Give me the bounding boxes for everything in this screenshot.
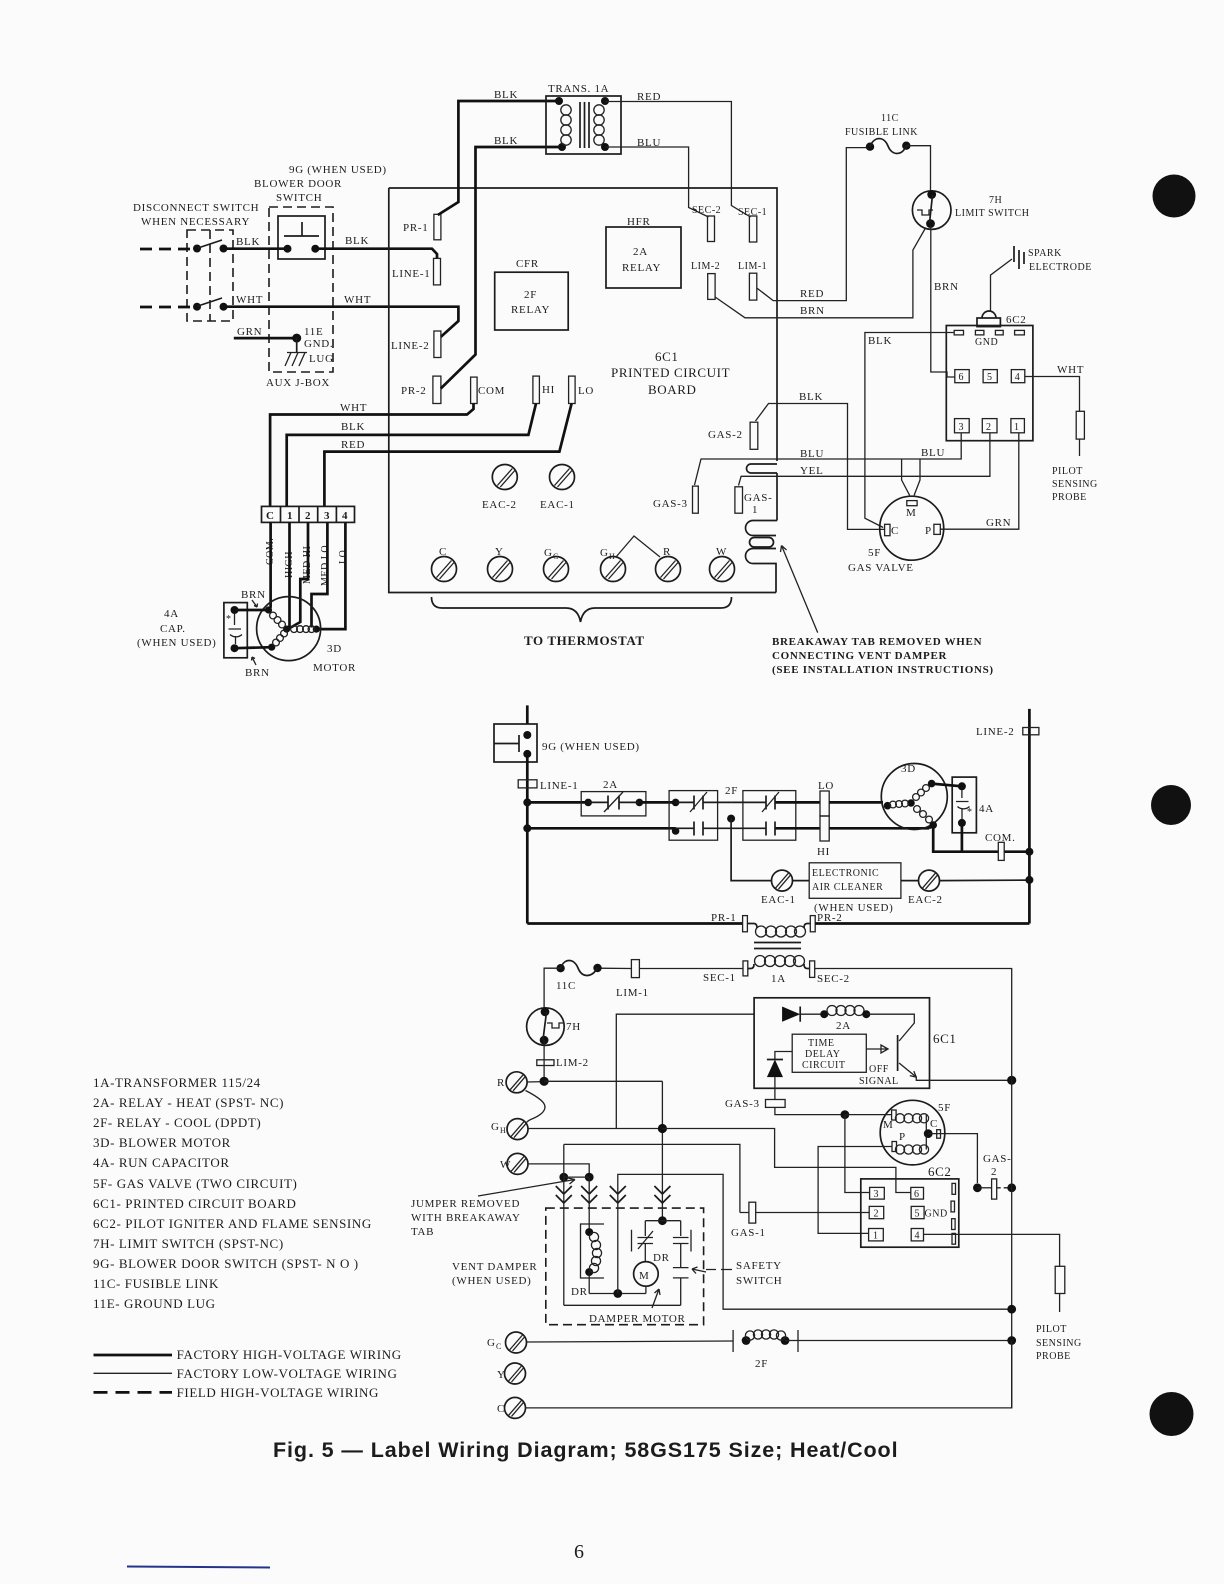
R drop to damper — [661, 1081, 663, 1220]
svg-text:BLK: BLK — [236, 236, 260, 248]
svg-text:LIMIT SWITCH: LIMIT SWITCH — [955, 208, 1029, 219]
svg-text:P: P — [899, 1131, 906, 1143]
svg-text:LO: LO — [578, 385, 594, 397]
wire BRN LIM-2 to 7H — [715, 228, 925, 318]
svg-text:M: M — [639, 1270, 649, 1282]
svg-text:2: 2 — [991, 1166, 997, 1178]
svg-text:(SEE INSTALLATION INSTRUCTIONS: (SEE INSTALLATION INSTRUCTIONS) — [772, 664, 994, 676]
svg-text:BLU: BLU — [637, 137, 661, 149]
GRN wire — [234, 337, 297, 340]
svg-text:2F: 2F — [524, 289, 537, 301]
svg-text:FIELD HIGH-VOLTAGE WIRING: FIELD HIGH-VOLTAGE WIRING — [177, 1385, 379, 1400]
svg-text:LINE-1: LINE-1 — [540, 780, 578, 792]
svg-text:WHEN NECESSARY: WHEN NECESSARY — [141, 216, 250, 228]
svg-text:BLK: BLK — [868, 335, 892, 347]
jumper arrow — [478, 1178, 575, 1196]
svg-text:WITH BREAKAWAY: WITH BREAKAWAY — [411, 1212, 521, 1224]
svg-text:C: C — [496, 1342, 501, 1351]
svg-text:5F- GAS VALVE (TWO CIRCUIT): 5F- GAS VALVE (TWO CIRCUIT) — [93, 1176, 297, 1191]
svg-text:PR-1: PR-1 — [403, 222, 428, 234]
svg-text:PR-1: PR-1 — [711, 912, 736, 924]
svg-text:P: P — [925, 525, 932, 537]
GAS-2 pad — [750, 422, 758, 449]
svg-text:GAS-2: GAS-2 — [708, 429, 743, 441]
WHT wire pin4 to pilot probe — [1025, 377, 1080, 412]
svg-text:GAS-: GAS- — [744, 492, 772, 504]
wire valve M to pin 3 — [845, 1115, 870, 1193]
cap to motor wires — [235, 609, 269, 612]
svg-text:1: 1 — [1014, 422, 1020, 433]
svg-text:LIM-1: LIM-1 — [616, 987, 649, 999]
svg-text:MOTOR: MOTOR — [313, 662, 356, 674]
thermostat brace — [432, 597, 732, 622]
svg-text:1: 1 — [287, 510, 293, 522]
svg-text:R: R — [497, 1077, 505, 1089]
EAC-1 screw — [550, 465, 575, 490]
HI pad ladder — [820, 816, 829, 841]
HI pad — [533, 376, 540, 403]
svg-text:DAMPER MOTOR: DAMPER MOTOR — [589, 1313, 686, 1325]
punch hole 2 — [1151, 785, 1191, 825]
svg-text:2F- RELAY - COOL (DPDT): 2F- RELAY - COOL (DPDT) — [93, 1115, 261, 1130]
EAC-2 screw — [492, 465, 517, 490]
wire RED trans to SEC-1 — [605, 102, 751, 218]
svg-text:(WHEN USED): (WHEN USED) — [452, 1275, 532, 1287]
svg-text:OFF: OFF — [869, 1064, 889, 1075]
valve P wire to pin 1 — [818, 1147, 892, 1234]
7H limit switch — [912, 191, 951, 230]
wire BLU trans to SEC-2 — [605, 147, 709, 217]
wire fuse to 7H — [906, 146, 930, 191]
svg-text:Fig. 5 — Label Wiring Diagram;: Fig. 5 — Label Wiring Diagram; 58GS175 S… — [273, 1438, 898, 1462]
svg-text:SENSING: SENSING — [1036, 1338, 1082, 1349]
svg-text:7H- LIMIT SWITCH (SPST-NC): 7H- LIMIT SWITCH (SPST-NC) — [93, 1236, 284, 1251]
svg-text:SWITCH: SWITCH — [736, 1275, 782, 1287]
svg-text:GAS VALVE: GAS VALVE — [848, 562, 914, 574]
6C2 board ladder — [861, 1179, 959, 1247]
aux j-box dashed outline — [269, 207, 333, 372]
9G blower door switch (ladder) — [526, 705, 529, 724]
svg-text:2F: 2F — [755, 1358, 768, 1370]
breakaway finger lower — [746, 549, 777, 593]
svg-text:GAS-1: GAS-1 — [731, 1227, 766, 1239]
LIM-2 ladder — [543, 1040, 545, 1081]
7H ladder — [527, 1008, 565, 1046]
SEC-2 pad — [708, 216, 715, 242]
svg-text:C: C — [266, 510, 275, 522]
svg-text:4A: 4A — [164, 608, 179, 620]
6C2 igniter board top terminal — [982, 311, 996, 318]
transformer core bars — [754, 942, 801, 944]
breakaway finger upper — [746, 521, 778, 536]
damper motor M — [634, 1262, 659, 1287]
svg-text:9G (WHEN USED): 9G (WHEN USED) — [289, 164, 387, 176]
svg-text:SEC-1: SEC-1 — [738, 207, 767, 218]
SEC-1 pad — [749, 216, 756, 242]
svg-text:*: * — [226, 614, 232, 625]
pilot sensing probe resistor — [1076, 411, 1084, 439]
svg-text:DR: DR — [571, 1286, 588, 1298]
breakaway slot upper — [747, 464, 778, 473]
svg-text:6C2- PILOT IGNITER AND FLAME S: 6C2- PILOT IGNITER AND FLAME SENSING — [93, 1216, 372, 1231]
wire BLK from HI to block — [287, 404, 536, 507]
6C1 time delay board — [754, 998, 929, 1089]
wire trans BLK2 to PR-2 — [441, 147, 562, 389]
svg-text:LINE-2: LINE-2 — [391, 340, 429, 352]
BLK wire gas-2 to valve C — [756, 404, 885, 530]
svg-text:GAS-3: GAS-3 — [653, 498, 688, 510]
svg-text:3: 3 — [324, 510, 330, 522]
svg-text:CIRCUIT: CIRCUIT — [802, 1060, 846, 1071]
svg-text:2F: 2F — [725, 785, 738, 797]
svg-text:3: 3 — [874, 1189, 880, 1200]
svg-text:PROBE: PROBE — [1036, 1351, 1071, 1362]
svg-text:BRN: BRN — [245, 667, 270, 679]
BLU wire gas-3 to 6C2 pin3 — [695, 434, 962, 486]
punch hole 3 — [1150, 1392, 1194, 1436]
safety switch — [673, 1263, 689, 1305]
svg-text:SIGNAL: SIGNAL — [859, 1076, 899, 1087]
svg-text:BRN: BRN — [241, 589, 266, 601]
svg-text:SEC-2: SEC-2 — [692, 205, 721, 216]
svg-text:GND.: GND. — [304, 338, 333, 350]
jumper tent Gh to R — [616, 536, 660, 557]
disconnect switch inner dashed divider — [209, 230, 211, 321]
svg-text:H: H — [500, 1126, 506, 1135]
svg-text:WHT: WHT — [236, 294, 263, 306]
svg-text:1A-TRANSFORMER 115/24: 1A-TRANSFORMER 115/24 — [93, 1075, 261, 1090]
Gh tap up to 6C1 diode — [616, 1014, 754, 1128]
svg-text:SENSING: SENSING — [1052, 479, 1098, 490]
R to Gh jumper curve — [526, 1091, 546, 1123]
svg-text:GND: GND — [925, 1209, 948, 1220]
zener to gas-3 — [775, 1052, 792, 1060]
svg-text:6: 6 — [959, 372, 965, 383]
svg-text:LIM-1: LIM-1 — [738, 261, 767, 272]
svg-text:C: C — [930, 1118, 938, 1130]
svg-text:5: 5 — [987, 372, 993, 383]
YEL wire gas-1 to 6C2 pin2 — [739, 434, 990, 486]
svg-text:BLK: BLK — [345, 235, 369, 247]
svg-text:BLK: BLK — [799, 391, 823, 403]
6C1 output to rail — [930, 1079, 1012, 1081]
svg-text:RED: RED — [800, 288, 824, 300]
svg-text:GRN: GRN — [986, 517, 1011, 529]
right rail lower ladder — [1011, 969, 1013, 1408]
svg-text:6C2: 6C2 — [928, 1164, 951, 1179]
svg-text:1: 1 — [752, 504, 758, 516]
svg-text:JUMPER REMOVED: JUMPER REMOVED — [411, 1198, 520, 1210]
svg-text:6C1- PRINTED CIRCUIT BOARD: 6C1- PRINTED CIRCUIT BOARD — [93, 1196, 297, 1211]
svg-text:DISCONNECT SWITCH: DISCONNECT SWITCH — [133, 202, 259, 214]
svg-text:4A: 4A — [979, 803, 994, 815]
5F gas valve — [880, 496, 944, 560]
diode — [782, 1007, 800, 1022]
LO pad — [569, 376, 576, 403]
6C2 pins 6 5 4 — [955, 370, 969, 383]
upper rail to 2A — [527, 801, 588, 804]
motor speed terminal block — [262, 506, 355, 522]
breakaway oval hole — [750, 538, 774, 548]
svg-text:SEC-1: SEC-1 — [703, 972, 736, 984]
svg-text:PRINTED CIRCUIT: PRINTED CIRCUIT — [611, 365, 730, 380]
svg-text:2: 2 — [874, 1209, 880, 1220]
punch hole 1 — [1153, 175, 1196, 218]
svg-text:HI: HI — [542, 384, 555, 396]
svg-text:MED LO: MED LO — [320, 545, 331, 586]
svg-text:7H: 7H — [566, 1021, 581, 1033]
svg-text:1: 1 — [873, 1231, 879, 1242]
svg-text:4: 4 — [342, 510, 348, 522]
svg-text:TRANS. 1A: TRANS. 1A — [548, 83, 609, 95]
svg-text:11E: 11E — [304, 326, 323, 338]
wire BLK disconnect to 9G — [224, 247, 288, 250]
breakaway arrow — [781, 546, 818, 633]
svg-text:3D: 3D — [327, 643, 342, 655]
LIM-2 pad — [708, 274, 715, 300]
svg-text:FUSIBLE LINK: FUSIBLE LINK — [845, 127, 918, 138]
GAS-3 pad — [693, 486, 699, 513]
secondary coil SEC-1 SEC-2 — [748, 964, 754, 969]
wire RED from LO to block — [324, 404, 571, 507]
6C1 board outline — [389, 188, 777, 461]
svg-text:LO: LO — [338, 550, 349, 564]
svg-text:WHT: WHT — [1057, 364, 1084, 376]
wire RED LIM-1 to fusible link — [757, 148, 866, 301]
svg-text:GAS-3: GAS-3 — [725, 1098, 760, 1110]
LINE-2 pad — [434, 331, 441, 358]
svg-text:1A: 1A — [771, 973, 786, 985]
svg-text:2A: 2A — [836, 1020, 851, 1032]
ground lug 11E — [296, 338, 298, 353]
svg-text:AIR CLEANER: AIR CLEANER — [812, 882, 883, 893]
svg-text:4: 4 — [1015, 372, 1021, 383]
svg-text:HI: HI — [817, 846, 830, 858]
4A run capacitor ladder — [952, 777, 976, 833]
time delay circuit box — [792, 1034, 866, 1072]
svg-text:SPARK: SPARK — [1028, 248, 1062, 259]
svg-text:11E- GROUND LUG: 11E- GROUND LUG — [93, 1296, 216, 1311]
svg-text:EAC-2: EAC-2 — [482, 499, 517, 511]
svg-text:FACTORY LOW-VOLTAGE WIRING: FACTORY LOW-VOLTAGE WIRING — [177, 1366, 398, 1381]
svg-text:GAS-: GAS- — [983, 1153, 1011, 1165]
svg-text:RELAY: RELAY — [511, 304, 550, 316]
2A coil — [820, 1010, 828, 1018]
svg-text:PR-2: PR-2 — [401, 385, 426, 397]
DR relay coil — [581, 1224, 605, 1278]
svg-text:DELAY: DELAY — [805, 1049, 840, 1060]
svg-text:M: M — [883, 1119, 893, 1131]
svg-text:BLK: BLK — [494, 89, 518, 101]
svg-text:FACTORY HIGH-VOLTAGE WIRING: FACTORY HIGH-VOLTAGE WIRING — [177, 1347, 402, 1362]
BLK wire 6C2 to valve C — [865, 333, 954, 528]
wire trans BLK to PR-1 — [438, 101, 559, 215]
svg-text:PILOT: PILOT — [1036, 1324, 1067, 1335]
svg-text:SWITCH: SWITCH — [276, 192, 322, 204]
svg-text:11C: 11C — [556, 980, 576, 992]
primary rail PR-1 PR-2 — [527, 922, 742, 925]
svg-text:2: 2 — [305, 510, 311, 522]
svg-text:PILOT: PILOT — [1052, 466, 1083, 477]
svg-text:EAC-2: EAC-2 — [908, 894, 943, 906]
GRN wire valve P to 6C2 pin1 — [940, 434, 1019, 530]
svg-text:WHT: WHT — [340, 402, 367, 414]
COM pad — [471, 377, 478, 403]
secondary rail right — [815, 968, 1012, 971]
svg-text:G: G — [487, 1337, 496, 1349]
lower rail to 2F — [527, 827, 675, 830]
2F relay coil bottom — [733, 1330, 798, 1352]
svg-text:3: 3 — [959, 422, 965, 433]
svg-text:2A: 2A — [603, 779, 618, 791]
BRN wire 7H down to 6C2 pin6 — [931, 227, 955, 377]
svg-text:4A- RUN CAPACITOR: 4A- RUN CAPACITOR — [93, 1155, 230, 1170]
PR-2 pad — [433, 376, 441, 403]
svg-text:5F: 5F — [868, 547, 881, 559]
svg-text:11C: 11C — [881, 113, 899, 124]
svg-text:2A- RELAY - HEAT (SPST- NC): 2A- RELAY - HEAT (SPST- NC) — [93, 1095, 284, 1110]
svg-text:6C1: 6C1 — [933, 1031, 956, 1046]
field wiring dashes WHT — [140, 306, 196, 309]
svg-text:6: 6 — [914, 1189, 920, 1200]
wire to 6C2 pin 6 — [662, 1129, 910, 1193]
svg-text:2: 2 — [986, 422, 992, 433]
svg-text:WHT: WHT — [344, 294, 371, 306]
svg-text:RELAY: RELAY — [622, 262, 661, 274]
svg-text:YEL: YEL — [800, 465, 823, 477]
svg-text:9G- BLOWER DOOR SWITCH (SPST-: 9G- BLOWER DOOR SWITCH (SPST- N O ) — [93, 1256, 359, 1271]
svg-text:TIME: TIME — [808, 1038, 834, 1049]
svg-text:BLK: BLK — [494, 135, 518, 147]
blue rule bottom left — [127, 1566, 270, 1569]
svg-text:COM: COM — [478, 385, 505, 397]
GAS-1 ladder wire from W — [564, 1144, 740, 1212]
disconnect switch dashed box — [187, 230, 233, 321]
EAC circuit — [731, 819, 772, 881]
svg-text:LINE-2: LINE-2 — [976, 726, 1014, 738]
fusible link 11C — [866, 143, 874, 151]
svg-text:BREAKAWAY TAB REMOVED WHEN: BREAKAWAY TAB REMOVED WHEN — [772, 636, 982, 648]
svg-text:EAC-1: EAC-1 — [761, 894, 796, 906]
valve C to GAS-2 ladder — [937, 1130, 941, 1139]
vent damper dashed box — [546, 1208, 704, 1325]
svg-text:GRN: GRN — [237, 326, 262, 338]
svg-text:SEC-2: SEC-2 — [817, 973, 850, 985]
svg-text:AUX J-BOX: AUX J-BOX — [266, 377, 330, 389]
svg-text:TO THERMOSTAT: TO THERMOSTAT — [524, 633, 645, 648]
svg-text:6: 6 — [574, 1541, 584, 1563]
board edge segment — [776, 473, 778, 521]
svg-text:(WHEN USED): (WHEN USED) — [137, 637, 217, 649]
svg-text:LO: LO — [818, 780, 834, 792]
blower door switch box 9G — [278, 216, 325, 259]
4A run capacitor — [224, 603, 247, 658]
svg-text:2A: 2A — [633, 246, 648, 258]
svg-text:LUG: LUG — [309, 353, 334, 365]
svg-text:CAP.: CAP. — [160, 623, 186, 635]
transistor — [866, 1014, 914, 1041]
svg-text:LIM-2: LIM-2 — [556, 1057, 589, 1069]
legend line samples — [94, 1354, 173, 1357]
wire WHT from COM to block — [270, 404, 473, 507]
secondary rail left to LIM-1 and 11C — [639, 968, 743, 970]
right rail with LINE-2 — [1028, 709, 1031, 924]
left rail with LINE-1 — [526, 754, 529, 924]
svg-text:6C2: 6C2 — [1006, 314, 1026, 326]
PR-1 pad — [434, 214, 441, 240]
3D blower motor circle — [257, 597, 321, 661]
GAS-1 pad — [735, 487, 743, 513]
block wires down to motor — [269, 522, 271, 610]
svg-text:RED: RED — [637, 91, 661, 103]
5F gas valve ladder — [880, 1100, 945, 1165]
V wires to valve M — [902, 459, 910, 495]
svg-text:PROBE: PROBE — [1052, 492, 1087, 503]
field wiring dashes BLK — [140, 248, 196, 251]
svg-text:G: G — [491, 1121, 500, 1133]
svg-text:9G (WHEN USED): 9G (WHEN USED) — [542, 741, 640, 753]
svg-text:BLOWER DOOR: BLOWER DOOR — [254, 178, 342, 190]
svg-text:VENT DAMPER: VENT DAMPER — [452, 1261, 537, 1273]
svg-text:C: C — [891, 525, 899, 537]
svg-text:GND: GND — [975, 337, 998, 348]
svg-text:7H: 7H — [989, 195, 1002, 206]
6C2 pins 3 2 1 — [955, 419, 970, 433]
spark electrode — [1014, 246, 1024, 269]
svg-text:6C1: 6C1 — [655, 349, 678, 364]
wire BLK 9G to LINE-1 — [315, 249, 437, 259]
svg-text:CFR: CFR — [516, 258, 539, 270]
svg-text:LINE-1: LINE-1 — [392, 268, 430, 280]
pin 4 wire to pilot probe — [924, 1234, 1060, 1266]
wire WHT row — [224, 307, 459, 337]
svg-text:BRN: BRN — [800, 305, 825, 317]
svg-text:SAFETY: SAFETY — [736, 1260, 782, 1272]
chevron jumpers — [556, 1186, 572, 1203]
svg-text:3D- BLOWER MOTOR: 3D- BLOWER MOTOR — [93, 1135, 231, 1150]
svg-text:CONNECTING VENT DAMPER: CONNECTING VENT DAMPER — [772, 650, 947, 662]
svg-text:*: * — [967, 807, 973, 818]
svg-text:BLK: BLK — [341, 421, 365, 433]
damper line to rail — [618, 1174, 1012, 1309]
svg-text:TAB: TAB — [411, 1226, 434, 1238]
GAS-3 ladder — [766, 1100, 786, 1108]
DR contact capacitors — [658, 1216, 667, 1225]
svg-text:BLU: BLU — [800, 448, 824, 460]
svg-text:RED: RED — [341, 439, 365, 451]
LINE-1 pad — [434, 258, 441, 285]
svg-text:ELECTRONIC: ELECTRONIC — [812, 868, 879, 879]
svg-text:DR: DR — [653, 1252, 670, 1264]
svg-text:BOARD: BOARD — [648, 382, 697, 397]
svg-text:11C- FUSIBLE LINK: 11C- FUSIBLE LINK — [93, 1276, 219, 1291]
svg-text:5: 5 — [915, 1209, 921, 1220]
LIM-1 pad — [749, 273, 756, 300]
svg-text:EAC-1: EAC-1 — [540, 499, 575, 511]
motor coils — [283, 626, 290, 633]
svg-text:5F: 5F — [938, 1102, 951, 1114]
svg-text:LIM-2: LIM-2 — [691, 261, 720, 272]
svg-text:BLU: BLU — [921, 447, 945, 459]
disconnect switch poles — [193, 245, 201, 253]
svg-text:BRN: BRN — [934, 281, 959, 293]
svg-text:ELECTRODE: ELECTRODE — [1029, 262, 1092, 273]
svg-text:4: 4 — [915, 1231, 921, 1242]
svg-text:M: M — [906, 507, 916, 519]
6C2 igniter board — [946, 326, 1033, 441]
rail 2A to 2F — [639, 801, 675, 804]
